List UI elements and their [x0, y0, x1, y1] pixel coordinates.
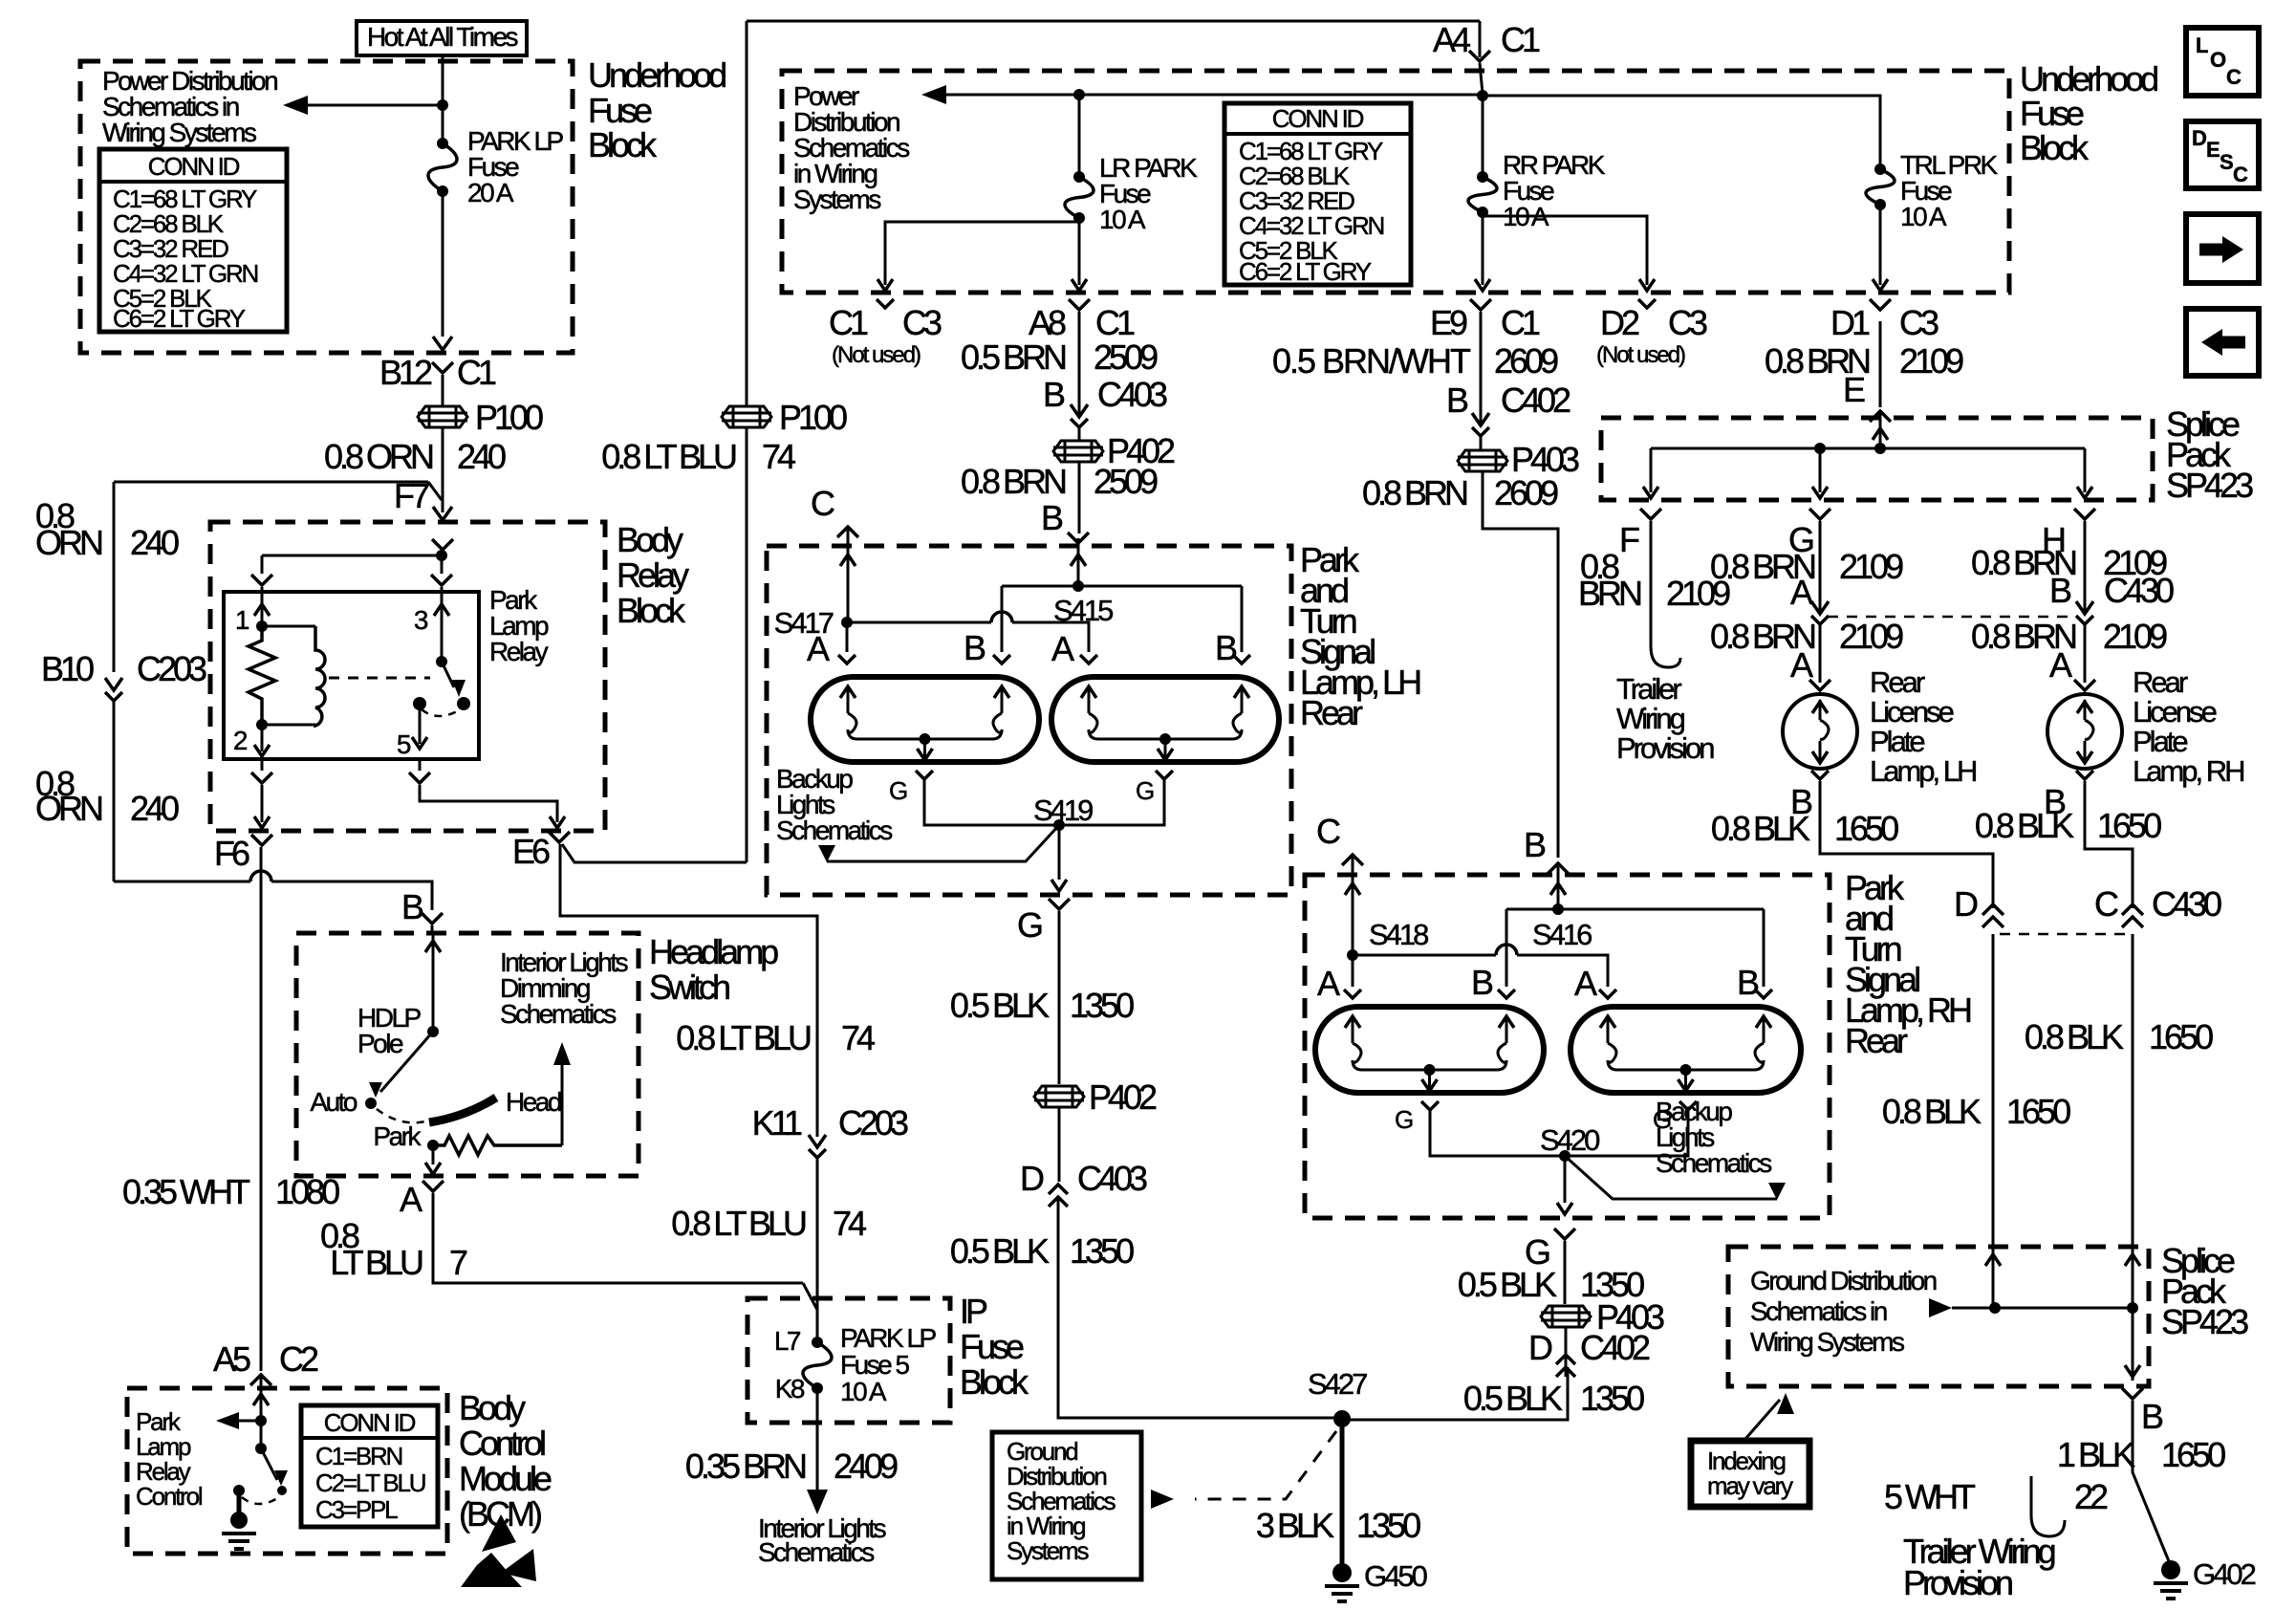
connector C1 pin A4 [1433, 20, 1540, 61]
wire pin2 exit to F6 [251, 759, 272, 828]
connector G rh bulb2 [1653, 1101, 1697, 1134]
label 0.5 BLK 1350 (1350 lower) [950, 1231, 1134, 1271]
svg-text:5 WHT: 5 WHT [1884, 1477, 1976, 1516]
wire C into box2 and down [2125, 1247, 2140, 1381]
svg-text:3 BLK: 3 BLK [1256, 1506, 1334, 1545]
svg-text:C430: C430 [2104, 571, 2174, 610]
svg-text:Underhood: Underhood [2020, 59, 2157, 98]
wire P402 to lamp B [1078, 462, 1081, 533]
svg-text:0.5 BLK: 0.5 BLK [950, 986, 1050, 1025]
svg-text:B: B [2141, 1397, 2163, 1436]
wire to P403 [1480, 436, 1483, 450]
connector A headlamp out [400, 1180, 444, 1219]
svg-text:240: 240 [130, 523, 179, 562]
connector G lh bulb2 [1136, 771, 1173, 805]
wire A8 to C403 [1078, 312, 1081, 415]
wire S418 to bulb A [1352, 955, 1354, 987]
svg-text:License: License [2133, 695, 2217, 729]
svg-text:Park: Park [373, 1121, 422, 1151]
svg-text:0.8 BRN: 0.8 BRN [961, 462, 1066, 501]
bcm node 1 [255, 1415, 267, 1426]
connector B rh bulb1 [1471, 963, 1515, 1002]
interior lights dimming resistor [433, 1042, 571, 1155]
wire fuse output down [433, 191, 452, 350]
svg-text:2: 2 [233, 726, 248, 755]
wire B into headlamp switch [431, 925, 434, 933]
wire A4 into ufb2 [1480, 21, 1483, 94]
indexing may vary box [1691, 1441, 1809, 1507]
svg-text:Auto: Auto [310, 1087, 357, 1117]
svg-text:Systems: Systems [793, 185, 880, 214]
connector C203 pin B10 [41, 649, 206, 701]
svg-text:Relay: Relay [617, 555, 689, 595]
svg-text:Wiring: Wiring [1616, 702, 1685, 735]
svg-text:S420: S420 [1540, 1123, 1600, 1157]
wire park output [425, 1145, 441, 1174]
label 0.5 BLK 1350 (g lh) [950, 986, 1134, 1025]
svg-text:C430: C430 [2152, 884, 2221, 924]
svg-text:P402: P402 [1089, 1077, 1157, 1117]
headlamp pole wire [425, 933, 441, 1029]
svg-text:P100: P100 [779, 398, 847, 437]
svg-text:2109: 2109 [2103, 617, 2167, 656]
label 0.35 BRN 2409 [685, 1447, 898, 1486]
svg-text:L7: L7 [774, 1326, 801, 1356]
label 0.5 BRN/WHT 2609 [1272, 341, 1558, 381]
svg-text:D: D [1528, 1328, 1552, 1367]
svg-text:C203: C203 [137, 649, 206, 688]
park turn lamp RH (dashed) [1305, 875, 1830, 1218]
svg-text:1350: 1350 [1580, 1379, 1644, 1418]
label 3 BLK 1350 [1256, 1506, 1420, 1545]
connector C403 pin D [1020, 1159, 1147, 1207]
wire S419 to backup lights [827, 825, 1059, 861]
connector D top [1954, 884, 2004, 927]
svg-text:Body: Body [459, 1388, 526, 1427]
svg-text:C402: C402 [1580, 1328, 1650, 1367]
svg-text:0.35 WHT: 0.35 WHT [122, 1172, 250, 1211]
svg-text:Rear: Rear [2133, 665, 2188, 699]
connector G lh bulb1 [889, 771, 933, 805]
headlamp wiper arm [369, 1032, 433, 1098]
note power distribution ufb2 [793, 81, 909, 214]
svg-text:Headlamp: Headlamp [649, 932, 778, 971]
wire K11 down to IP fuse block [816, 1158, 819, 1342]
nav button LOC [2186, 28, 2259, 96]
fuse PARK LP fuse5 ip [774, 1323, 937, 1406]
wire P100 to F7 [433, 428, 452, 520]
svg-text:Module: Module [459, 1459, 552, 1498]
connector C lh lamp [811, 484, 858, 537]
svg-text:K11: K11 [752, 1103, 802, 1142]
connector G [1788, 509, 1830, 559]
wire K8 down out of ip block [816, 1388, 819, 1491]
splice bus sp423 lower [1952, 1302, 2138, 1314]
wire left rail to headlamp B [114, 871, 432, 910]
relay pin 5 [397, 704, 427, 759]
connector C1 pin A8 [1029, 299, 1135, 342]
wire A5 into BCM [260, 1377, 263, 1388]
auto contact [310, 1087, 377, 1117]
fuse RR PARK 10A [1468, 150, 1606, 231]
relay coil node top [256, 620, 268, 632]
svg-text:Fuse: Fuse [588, 91, 652, 130]
relay pin 5 contact [413, 697, 470, 716]
connector C430 pin A (g) [1790, 573, 2077, 624]
svg-text:Wiring Systems: Wiring Systems [1750, 1327, 1904, 1357]
wire S419 down out of box [1051, 825, 1067, 891]
svg-text:C1: C1 [1095, 303, 1135, 342]
label 0.5 BLK 1350 (s427 right) [1463, 1379, 1644, 1418]
svg-text:B: B [1041, 498, 1063, 537]
svg-text:G: G [1395, 1105, 1413, 1134]
svg-text:Fuse 5: Fuse 5 [840, 1350, 910, 1380]
svg-text:1350: 1350 [1070, 986, 1134, 1025]
connector C2 pin A5 [213, 1339, 318, 1385]
svg-text:1650: 1650 [1834, 809, 1898, 848]
svg-text:0.8 LT BLU: 0.8 LT BLU [671, 1204, 806, 1243]
svg-text:C: C [811, 484, 834, 523]
wire S415 bus [1002, 586, 1242, 652]
label underhood fuse block 1 [588, 55, 726, 164]
wire G to C430 A [1819, 521, 1822, 614]
svg-text:2509: 2509 [1094, 337, 1158, 377]
connector A lh bulb2 [1051, 629, 1097, 668]
underhood fuse block 1 (dashed) [80, 61, 573, 353]
ufb2 bus with arrow to power dist [921, 85, 1488, 104]
svg-text:A5: A5 [213, 1339, 250, 1379]
indexing arrow [1745, 1393, 1794, 1439]
node S427 [1308, 1367, 1367, 1427]
node S417 [774, 606, 853, 640]
svg-text:Schematics: Schematics [776, 816, 892, 845]
label interior lights dimming schematics [500, 947, 628, 1029]
connector G below lh box [1017, 899, 1070, 945]
wire D down to ground dist [1992, 934, 1995, 1247]
wire B12 to P100 [442, 375, 444, 405]
svg-text:240: 240 [457, 437, 506, 476]
wire sp423 drop H [2077, 448, 2092, 498]
label rear license plate lamp lh [1870, 665, 1976, 788]
label 0.8 BRN 2109 (h2) [1971, 617, 2167, 656]
bcm switch contact to ground [233, 1485, 279, 1512]
svg-text:2609: 2609 [1494, 473, 1558, 512]
bcm park lamp relay control arrow [216, 1412, 261, 1429]
svg-text:E: E [1843, 370, 1865, 409]
svg-text:2109: 2109 [1839, 547, 1903, 586]
svg-text:Hot At All Times: Hot At All Times [367, 22, 518, 52]
svg-text:P100: P100 [475, 398, 543, 437]
svg-text:0.5 BLK: 0.5 BLK [950, 1231, 1050, 1271]
svg-text:Schematics in: Schematics in [1750, 1296, 1887, 1326]
wire G bus to S420 [1430, 1110, 1688, 1156]
svg-text:Block: Block [960, 1362, 1029, 1402]
label trailer wiring provision 2 [1903, 1532, 2055, 1602]
nav button prev [2186, 309, 2259, 376]
label headlamp switch [649, 932, 778, 1007]
label 0.5 BRN 2509 [961, 337, 1158, 377]
svg-text:C403: C403 [1097, 375, 1167, 414]
connector C402 pin B (rr) [1446, 381, 1570, 436]
relay pin 1 [235, 592, 270, 635]
connector A rh license [2049, 645, 2095, 690]
bulb lh outer [811, 677, 1039, 762]
svg-text:F6: F6 [214, 834, 249, 873]
headlamp switch (dashed) [296, 933, 639, 1176]
label 0.8 BRN 2609 [1362, 473, 1558, 512]
svg-text:Schematics: Schematics [500, 999, 616, 1029]
wire C down to ground dist [2132, 934, 2134, 1247]
wire tee to relay pins [251, 555, 452, 592]
nav button DESC [2186, 121, 2259, 188]
connector C430 pin B (h) [2049, 571, 2174, 624]
connector F6 [214, 834, 272, 873]
wire F7 entry to tee [432, 539, 453, 555]
label park lamp relay control [136, 1407, 203, 1511]
svg-text:Relay: Relay [489, 637, 549, 666]
svg-text:C2: C2 [279, 1339, 318, 1379]
label body relay block [617, 520, 689, 630]
grommet P403 second [1541, 1297, 1664, 1337]
svg-text:1650: 1650 [2161, 1435, 2225, 1474]
wire pin5 exit to E6 [409, 759, 565, 828]
wire S420 to backup lights [1565, 1156, 1777, 1199]
wire E into sp423 [1873, 413, 1888, 448]
label 0.8 LT BLU 7 [320, 1216, 467, 1282]
ground distribution dashed box 2 [1728, 1247, 2149, 1386]
bcm switch node [255, 1421, 267, 1454]
wire F6 down to A5 [260, 847, 263, 1371]
wire S417 bus [847, 612, 1089, 652]
label interior lights schematics [758, 1513, 886, 1567]
svg-text:Systems: Systems [1007, 1536, 1089, 1565]
svg-text:C1: C1 [1501, 20, 1540, 59]
wire S418 bus [1353, 945, 1608, 987]
wire to lh license lamp [1819, 624, 1822, 683]
svg-text:Schematics: Schematics [1656, 1148, 1771, 1178]
svg-text:2609: 2609 [1494, 341, 1558, 381]
connector G rh bulb1 [1395, 1101, 1439, 1134]
connector C1 pin B12 [379, 353, 496, 392]
connector C1 pin E9 [1430, 299, 1540, 342]
svg-text:C203: C203 [838, 1103, 908, 1142]
svg-text:PARK LP: PARK LP [840, 1323, 937, 1353]
ground distribution note box 1 [992, 1432, 1141, 1579]
grommet P100 second [722, 398, 847, 437]
svg-text:C1=BRN: C1=BRN [315, 1442, 402, 1470]
svg-text:CONN ID: CONN ID [148, 152, 240, 181]
label backup lights schematics lh [776, 764, 892, 862]
svg-text:D2: D2 [1600, 303, 1639, 342]
node relay feed tee [262, 550, 447, 561]
wire G down to P402b [1058, 911, 1061, 1084]
svg-text:C2=LT BLU: C2=LT BLU [315, 1469, 425, 1497]
svg-text:ORN: ORN [35, 789, 102, 828]
svg-text:Schematics: Schematics [758, 1537, 874, 1567]
svg-text:Trailer: Trailer [1616, 672, 1681, 706]
ground G402 [2154, 1557, 2256, 1599]
svg-text:C1: C1 [457, 353, 496, 392]
label 0.8 BLK 1650 (rh lic) [1975, 806, 2161, 845]
connector F [1619, 509, 1661, 559]
node S419 [1033, 794, 1093, 831]
svg-text:Fuse: Fuse [960, 1327, 1024, 1366]
relay coil [262, 626, 325, 726]
conn id table 1 [99, 149, 287, 333]
fuse TRL PRK 10A [1866, 150, 1999, 231]
svg-text:IP: IP [960, 1292, 987, 1331]
wire C403D down to S427 [1058, 1197, 1342, 1418]
label 0.8 BRN 2109 (d1) [1765, 341, 1963, 381]
svg-text:1 BLK: 1 BLK [2057, 1435, 2135, 1474]
svg-text:G402: G402 [2193, 1557, 2256, 1591]
wire B lh down to S415 [1071, 538, 1086, 584]
svg-text:Control: Control [459, 1424, 545, 1463]
wire lr park main down [1072, 218, 1087, 291]
svg-text:Pole: Pole [357, 1029, 403, 1058]
lt blu vertical from top [746, 21, 748, 405]
label ground distribution 2 [1750, 1266, 1937, 1357]
svg-text:2109: 2109 [1899, 341, 1963, 381]
body control module BCM (dashed) [127, 1388, 447, 1554]
wire bus to trl prk [1483, 96, 1880, 169]
connector G below rh box [1525, 1229, 1575, 1272]
label 0.35 WHT 1080 [122, 1172, 339, 1211]
svg-text:Provision: Provision [1616, 731, 1714, 765]
relay switch arm [436, 656, 466, 697]
svg-text:Block: Block [588, 125, 658, 164]
connector B rh lamp label [1524, 825, 1569, 874]
svg-text:C1: C1 [829, 303, 868, 342]
ip fuse block (dashed) [747, 1298, 950, 1423]
svg-text:SP423: SP423 [2166, 466, 2253, 505]
wire rh license to C [2085, 781, 2133, 908]
connector E6 [512, 832, 570, 871]
relay pin 2 [233, 725, 270, 756]
svg-text:(Not used): (Not used) [832, 342, 921, 368]
connector B rh license [2044, 771, 2093, 821]
label 0.8 LT BLU 74 (p100b) [601, 437, 795, 476]
svg-text:0.8 ORN: 0.8 ORN [324, 437, 433, 476]
svg-text:S427: S427 [1308, 1367, 1367, 1401]
label 0.8 BLK 1650 (lh lic) [1711, 809, 1898, 848]
connector B lh bulb1 [964, 628, 1010, 667]
wire branch 0.8 ORN to left rail [114, 482, 442, 500]
label ip fuse block [960, 1292, 1029, 1402]
left rail second 0.8 ORN 240 labels [35, 764, 179, 828]
svg-text:G450: G450 [1364, 1559, 1428, 1593]
svg-text:10 A: 10 A [840, 1377, 887, 1406]
svg-text:1350: 1350 [1070, 1231, 1134, 1271]
relay resistor [249, 626, 275, 725]
svg-text:0.8 BLK: 0.8 BLK [1975, 806, 2074, 845]
label splice pack sp423 [2166, 404, 2253, 505]
connector B lh license [1790, 771, 1829, 821]
node S420 [1540, 1123, 1600, 1162]
svg-text:2109: 2109 [1839, 617, 1903, 656]
svg-text:Underhood: Underhood [588, 55, 726, 95]
connector A rh bulb2 [1574, 964, 1616, 1003]
svg-text:74: 74 [833, 1204, 866, 1243]
svg-text:B: B [1524, 825, 1546, 864]
svg-text:B12: B12 [379, 353, 432, 392]
svg-text:0.8 LT BLU: 0.8 LT BLU [676, 1018, 811, 1057]
arrow to interior lights schematics [807, 1490, 828, 1514]
wire G down to P403b [1564, 1241, 1567, 1304]
svg-text:C3: C3 [1899, 303, 1939, 342]
grommet P402 second [1034, 1077, 1157, 1117]
svg-text:1650: 1650 [2097, 806, 2161, 845]
svg-text:3: 3 [414, 605, 428, 635]
svg-text:Body: Body [617, 520, 683, 559]
trailer provision hook 22 [1884, 1476, 2108, 1536]
connector C203 pin K11 [752, 1103, 908, 1158]
svg-text:C3: C3 [1668, 303, 1707, 342]
wire sp423 drop G [1812, 448, 1828, 498]
svg-text:SP423: SP423 [2161, 1302, 2248, 1341]
svg-text:74: 74 [762, 437, 795, 476]
svg-text:A8: A8 [1029, 303, 1066, 342]
label park turn lamp lh [1300, 540, 1420, 732]
connector D2 C3 not used [1596, 299, 1707, 368]
wire to power distribution (arrow left) [283, 96, 443, 115]
svg-text:10 A: 10 A [1099, 205, 1146, 234]
connector C403 pin B (lh) [1043, 375, 1167, 427]
svg-text:0.5 BRN: 0.5 BRN [961, 337, 1066, 377]
rear license plate lamp RH [2047, 694, 2122, 769]
bulb rh inner [1570, 1007, 1801, 1093]
svg-text:Rear: Rear [1845, 1021, 1908, 1060]
svg-text:E6: E6 [512, 832, 550, 871]
wire P403 to rh lamp B [1483, 471, 1558, 858]
connector E splice pack [1843, 370, 1891, 422]
label F7 [394, 476, 429, 515]
wire S417 to bulb A [846, 622, 849, 652]
label 1 BLK 1650 [2057, 1435, 2225, 1474]
svg-text:Ground Distribution: Ground Distribution [1750, 1266, 1937, 1295]
svg-text:BRN: BRN [1578, 574, 1641, 613]
svg-text:C402: C402 [1501, 381, 1570, 420]
rear license plate lamp LH [1783, 694, 1857, 769]
label 0.8 ORN 240 [324, 437, 506, 476]
svg-text:B10: B10 [41, 649, 94, 688]
wire D1 to splice pack [1879, 321, 1882, 407]
wire rr park branch D2 [1483, 212, 1655, 291]
left rail 0.8 ORN 240 labels [35, 496, 179, 562]
label backup lights schematics rh [1656, 1097, 1786, 1200]
wire A down and right to IP rail [433, 1193, 817, 1310]
svg-text:C: C [2094, 884, 2118, 924]
node on park lp feed [437, 99, 448, 111]
connector C1 C3 not used [829, 299, 942, 368]
wire E6 to LT BLU rail [562, 844, 747, 862]
label underhood fuse block 2 [2020, 59, 2157, 167]
svg-text:Block: Block [2020, 128, 2090, 167]
bcm input arrow [253, 1388, 269, 1419]
wire E9 to C402 [1480, 312, 1483, 424]
svg-text:C3: C3 [902, 303, 942, 342]
wire C lh into box [840, 529, 856, 620]
svg-text:may vary: may vary [1707, 1471, 1793, 1500]
svg-text:Rear: Rear [1870, 665, 1925, 699]
bcm switch arm [261, 1448, 288, 1495]
svg-text:LT BLU: LT BLU [330, 1243, 422, 1282]
svg-text:C6=2 LT GRY: C6=2 LT GRY [1239, 257, 1372, 286]
label 0.8 BLK 1650 (c) [2025, 1017, 2213, 1056]
node S418 [1347, 918, 1428, 961]
wire rr park feed [1482, 96, 1484, 177]
node S415 [1053, 580, 1113, 627]
